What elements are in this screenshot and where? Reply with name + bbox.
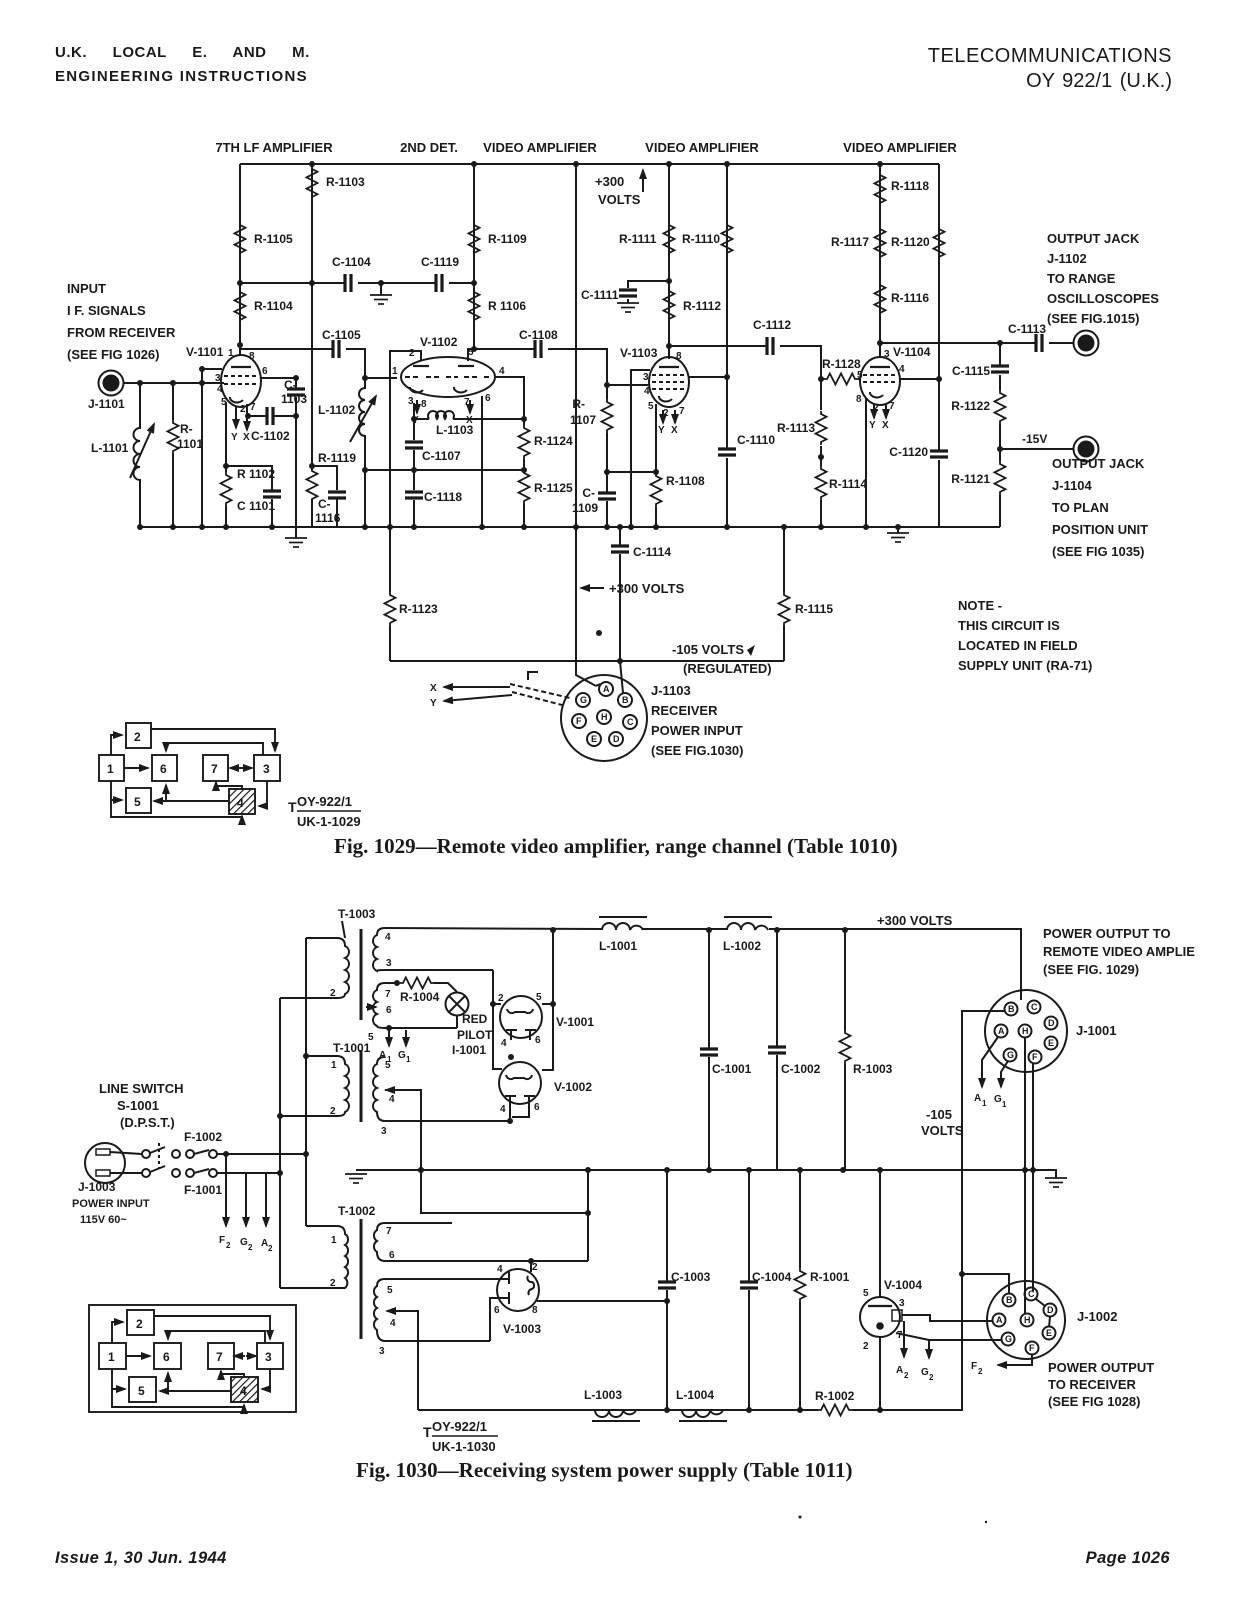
svg-text:R-1003: R-1003 xyxy=(853,1062,893,1076)
svg-text:L-1102: L-1102 xyxy=(318,403,356,417)
capacitor C-1104 xyxy=(345,274,351,292)
svg-text:Fig. 1030—Receiving system pow: Fig. 1030—Receiving system power supply … xyxy=(356,1458,852,1482)
node xyxy=(237,280,243,286)
wire 2 to 3 xyxy=(151,729,275,751)
svg-text:H: H xyxy=(1024,1315,1031,1325)
svg-text:B: B xyxy=(622,695,629,705)
wire: -105 line from pin B xyxy=(962,1011,1004,1274)
svg-text:C: C xyxy=(1028,1289,1035,1299)
T-1001 primary xyxy=(280,1056,349,1116)
svg-text:2: 2 xyxy=(929,1373,934,1382)
ground below bus at x=898 xyxy=(897,527,899,533)
rectifier V-1002 xyxy=(499,1062,541,1104)
svg-text:C-1113: C-1113 xyxy=(1008,322,1046,336)
svg-text:X: X xyxy=(243,432,250,443)
wire: mid rail y=470 xyxy=(365,469,524,471)
wire: V-1104 screen to x=939 xyxy=(900,378,939,380)
box 6 xyxy=(152,755,177,781)
svg-text:4: 4 xyxy=(217,384,223,395)
svg-text:R-1118: R-1118 xyxy=(891,179,929,193)
svg-text:5: 5 xyxy=(387,1285,393,1296)
A1 G1 tap arrows xyxy=(386,1025,392,1031)
wire: C-1108 coupling xyxy=(474,349,650,385)
filter cap C-1004 xyxy=(748,1170,750,1410)
svg-text:115V 60~: 115V 60~ xyxy=(80,1214,127,1226)
output jack J-1102 xyxy=(1074,331,1099,356)
svg-text:6: 6 xyxy=(535,1035,541,1046)
svg-text:8: 8 xyxy=(676,351,682,362)
block diagram 2 border xyxy=(89,1305,296,1412)
svg-text:OY-922/1: OY-922/1 xyxy=(432,1419,487,1434)
svg-text:C-1119: C-1119 xyxy=(421,255,459,269)
svg-text:I-1001: I-1001 xyxy=(452,1043,486,1057)
svg-text:R 1102: R 1102 xyxy=(237,467,275,481)
svg-text:7: 7 xyxy=(250,402,256,413)
svg-text:VIDEO AMPLIFIER: VIDEO AMPLIFIER xyxy=(843,140,957,155)
connector J-1002 xyxy=(987,1281,1065,1359)
svg-text:C-1003: C-1003 xyxy=(671,1270,711,1284)
svg-text:-105: -105 xyxy=(926,1107,952,1122)
svg-text:7: 7 xyxy=(385,989,391,1000)
resistor R-1109 xyxy=(469,222,480,256)
resistor R-1104 xyxy=(235,289,246,323)
svg-text:POWER OUTPUT TO: POWER OUTPUT TO xyxy=(1043,926,1171,941)
svg-text:T-1001: T-1001 xyxy=(333,1041,371,1055)
wire: V-1104 plate xyxy=(879,343,881,357)
Y X arrows V-1103 xyxy=(662,410,664,423)
svg-text:7: 7 xyxy=(386,1226,392,1237)
svg-text:F: F xyxy=(1029,1343,1035,1353)
wire: V-1103 pin3 return xyxy=(631,370,650,527)
wire: T-1002 pin5 to V-1003 pin4 xyxy=(385,1278,509,1280)
svg-text:C-1110: C-1110 xyxy=(737,433,775,447)
svg-text:Fig. 1029—Remote video amplifi: Fig. 1029—Remote video amplifier, range … xyxy=(334,834,898,858)
svg-text:2: 2 xyxy=(248,1243,253,1252)
wire: x=363 drop to bus xyxy=(364,436,366,527)
svg-text:FROM RECEIVER: FROM RECEIVER xyxy=(67,325,176,340)
svg-text:C-: C- xyxy=(582,486,595,500)
svg-text:V-1001: V-1001 xyxy=(556,1015,594,1029)
svg-text:C-1001: C-1001 xyxy=(712,1062,752,1076)
svg-text:OY 922/1 (U.K.): OY 922/1 (U.K.) xyxy=(1026,70,1172,92)
resistor R-1111 xyxy=(664,222,675,256)
wire: plug to switch xyxy=(110,1152,142,1173)
svg-text:4: 4 xyxy=(644,386,650,397)
svg-text:C-1107: C-1107 xyxy=(422,449,461,463)
svg-text:7: 7 xyxy=(889,401,895,412)
svg-text:2: 2 xyxy=(134,730,141,744)
svg-text:C-1114: C-1114 xyxy=(633,545,671,559)
choke L-1003 xyxy=(595,1410,636,1417)
svg-text:C-1004: C-1004 xyxy=(752,1270,792,1284)
svg-text:G: G xyxy=(1005,1334,1012,1344)
connector J-1001 xyxy=(985,990,1067,1072)
svg-text:TO PLAN: TO PLAN xyxy=(1052,500,1109,515)
svg-text:(SEE FIG.1015): (SEE FIG.1015) xyxy=(1047,311,1139,326)
resistor R-1107 xyxy=(602,399,613,433)
wire: V-1004 cathode down xyxy=(879,1337,881,1410)
svg-text:8: 8 xyxy=(532,1305,538,1316)
box 2 xyxy=(126,723,151,748)
svg-text:3: 3 xyxy=(215,373,221,384)
svg-text:6: 6 xyxy=(163,1350,170,1364)
svg-text:R-: R- xyxy=(572,397,585,411)
resistor R-1123 xyxy=(389,527,391,661)
svg-text:C-1104: C-1104 xyxy=(332,255,371,269)
svg-text:6: 6 xyxy=(386,1005,392,1016)
wire: T-1002 tap arrow to bottom rail xyxy=(394,1311,418,1410)
svg-text:R-1002: R-1002 xyxy=(815,1389,855,1403)
svg-text:4: 4 xyxy=(385,932,391,943)
wire: pin4 to R-1124 xyxy=(495,377,524,527)
stray mark 2 xyxy=(985,1521,987,1523)
A2 G2 arrows xyxy=(903,1321,905,1357)
svg-text:INPUT: INPUT xyxy=(67,281,106,296)
svg-text:C-1108: C-1108 xyxy=(519,328,558,342)
svg-text:H: H xyxy=(601,712,608,722)
wire to C-1111 xyxy=(628,281,669,288)
svg-text:C-1120: C-1120 xyxy=(889,445,928,459)
filter cap C-1001 xyxy=(708,930,710,1170)
Y X arrows V-1104 xyxy=(873,405,875,418)
svg-text:3: 3 xyxy=(381,1126,387,1137)
svg-text:2: 2 xyxy=(330,1278,336,1289)
svg-text:REMOTE VIDEO AMPLIE: REMOTE VIDEO AMPLIE xyxy=(1043,944,1195,959)
svg-text:2: 2 xyxy=(498,993,504,1004)
box 1 xyxy=(99,755,124,781)
svg-text:(SEE FIG 1028): (SEE FIG 1028) xyxy=(1048,1394,1140,1409)
svg-text:L-1004: L-1004 xyxy=(676,1388,714,1402)
wire: V-1002 filament xyxy=(510,1106,529,1121)
resistor R-1120 xyxy=(934,226,945,260)
svg-text:8: 8 xyxy=(249,351,255,362)
svg-text:3: 3 xyxy=(379,1346,385,1357)
wire 1 to 6 xyxy=(124,767,148,769)
wire: +300 top bus fig1030 xyxy=(385,928,1021,1000)
T-1003 secondary HV winding xyxy=(373,928,493,971)
svg-text:PILOT: PILOT xyxy=(457,1028,493,1042)
wire: grid leak node x=607 xyxy=(606,385,608,527)
svg-text:2: 2 xyxy=(532,1262,538,1273)
pin2/pin7 Y X arrows V-1101 xyxy=(235,407,237,428)
switch S-1001 contacts xyxy=(142,1150,150,1158)
F2 G2 A2 tap arrows xyxy=(225,1154,227,1226)
T-1002 primary xyxy=(280,1226,348,1288)
resistor R-1128 horizontal xyxy=(824,374,858,385)
svg-text:J-1003: J-1003 xyxy=(78,1180,116,1194)
svg-text:T-1002: T-1002 xyxy=(338,1204,376,1218)
wire: HV plate feed x=493 xyxy=(493,970,502,1069)
resistor R-1121 xyxy=(995,461,1006,495)
svg-text:C-1102: C-1102 xyxy=(251,429,290,443)
svg-text:4: 4 xyxy=(497,1264,503,1275)
svg-text:RED: RED xyxy=(462,1012,488,1026)
wire 6/3 link xyxy=(166,743,263,755)
svg-text:V-1103: V-1103 xyxy=(620,346,658,360)
svg-text:2: 2 xyxy=(268,1244,273,1253)
rectifier V-1001 xyxy=(500,996,542,1038)
wire + capacitor C-1101 xyxy=(226,466,272,527)
wire: output coupling line y=343 xyxy=(880,342,1073,344)
input jack J-1101 xyxy=(99,371,124,396)
svg-text:S-1001: S-1001 xyxy=(117,1098,159,1113)
wire: pin7 line to J-1002 G xyxy=(896,1333,1001,1340)
svg-text:V-1002: V-1002 xyxy=(554,1080,592,1094)
svg-text:3: 3 xyxy=(265,1350,272,1364)
wire: R-1120 branch x=939 xyxy=(938,164,940,527)
T-1002 core xyxy=(360,1219,363,1339)
svg-text:VIDEO AMPLIFIER: VIDEO AMPLIFIER xyxy=(483,140,597,155)
svg-text:R-1108: R-1108 xyxy=(666,474,705,488)
wire: V-1004 plate up xyxy=(879,1170,881,1297)
svg-text:4: 4 xyxy=(899,364,905,375)
capacitor C-1105 xyxy=(333,340,339,358)
wire: pole 1 line xyxy=(217,1153,306,1155)
svg-text:C-1111: C-1111 xyxy=(581,288,619,302)
wire: cathode branch pin5 xyxy=(225,402,227,527)
wire: input line xyxy=(123,382,224,384)
wire: ground bottom bus xyxy=(140,526,1000,528)
svg-text:1: 1 xyxy=(107,762,114,776)
svg-text:R-1123: R-1123 xyxy=(399,602,438,616)
wire: 2nd det plate branch x=474 xyxy=(473,164,475,349)
capacitor C-1108 xyxy=(535,340,541,358)
svg-text:A: A xyxy=(996,1315,1003,1325)
resistor R-1102 xyxy=(221,472,232,506)
wire: V-1103 screen to R-1110 xyxy=(689,376,727,378)
resistor R-1113 xyxy=(816,411,827,445)
capacitor C-1116 xyxy=(328,492,346,498)
box 6b xyxy=(154,1343,181,1369)
filter cap C-1002 xyxy=(776,930,778,1170)
svg-text:1: 1 xyxy=(982,1099,987,1108)
box 1b xyxy=(99,1343,126,1369)
resistor R-1119 xyxy=(307,468,318,502)
resistor R-1116 xyxy=(875,282,886,316)
svg-text:7TH LF AMPLIFIER: 7TH LF AMPLIFIER xyxy=(215,140,333,155)
svg-text:C-1115: C-1115 xyxy=(952,364,990,378)
svg-text:5: 5 xyxy=(857,370,863,381)
capacitor C-1119 xyxy=(436,274,442,292)
svg-text:C-1002: C-1002 xyxy=(781,1062,821,1076)
wire: left plate branch x=240 xyxy=(239,164,241,356)
svg-text:J-1101: J-1101 xyxy=(88,397,125,411)
resistor R-1105 xyxy=(235,222,246,256)
svg-text:C-: C- xyxy=(284,378,297,392)
svg-text:POSITION UNIT: POSITION UNIT xyxy=(1052,522,1148,537)
svg-text:T-1003: T-1003 xyxy=(338,907,376,921)
svg-text:2: 2 xyxy=(330,1106,336,1117)
svg-text:OUTPUT JACK: OUTPUT JACK xyxy=(1047,231,1140,246)
svg-text:E: E xyxy=(591,734,597,744)
capacitor C-1112 xyxy=(767,337,773,355)
F2 arrow from J-1002 F xyxy=(998,1355,1032,1365)
wire: pole 2 line xyxy=(217,1172,280,1174)
wire to 6 bottom xyxy=(165,785,167,801)
svg-text:3: 3 xyxy=(643,372,649,383)
svg-text:A: A xyxy=(998,1026,1005,1036)
svg-text:VOLTS: VOLTS xyxy=(598,192,641,207)
resistor R-1002 xyxy=(818,1405,852,1416)
box 2b xyxy=(127,1310,154,1335)
wire: V-1104 cathode to bus xyxy=(865,398,867,527)
svg-text:5: 5 xyxy=(134,795,141,809)
svg-text:POWER INPUT: POWER INPUT xyxy=(651,723,743,738)
svg-text:J-1002: J-1002 xyxy=(1077,1309,1117,1324)
resistor R-1125 xyxy=(519,470,530,504)
svg-text:5: 5 xyxy=(863,1288,869,1299)
svg-text:E: E xyxy=(1046,1328,1052,1338)
rectifier V-1003 xyxy=(497,1269,539,1311)
svg-text:2: 2 xyxy=(330,988,336,999)
+300 up arrow xyxy=(642,170,644,192)
svg-text:Y: Y xyxy=(430,698,437,709)
svg-text:R-1113: R-1113 xyxy=(777,421,815,435)
capacitor C-1115 xyxy=(991,366,1009,372)
T-1001 core xyxy=(360,1050,363,1122)
capacitor C-1102 on pin7 line xyxy=(247,415,296,417)
svg-text:LINE SWITCH: LINE SWITCH xyxy=(99,1081,184,1096)
small elbow mark xyxy=(528,672,538,680)
resistor R-1118 xyxy=(875,172,886,206)
svg-text:B: B xyxy=(1008,1004,1015,1014)
wire: V-1102 plate pins to +300 node xyxy=(390,349,474,527)
wire: V-1001 filament to T-1001 pin5 xyxy=(508,1054,514,1060)
inductor L-1102 (variable) xyxy=(359,378,365,470)
wire: V-1003 pin2 connect xyxy=(530,1261,532,1272)
tube V-1101 xyxy=(221,355,261,407)
svg-text:3: 3 xyxy=(386,958,392,969)
svg-text:1: 1 xyxy=(228,348,234,359)
wire: V-1103 plate load branch x=669 xyxy=(668,164,670,359)
svg-text:V-1102: V-1102 xyxy=(420,335,458,349)
svg-text:6: 6 xyxy=(262,366,268,377)
tube V-1102 (duo-diode triode) xyxy=(401,357,495,397)
svg-text:1: 1 xyxy=(392,366,398,377)
box 3 xyxy=(254,755,280,781)
svg-text:3: 3 xyxy=(884,349,890,360)
wire: V-1103 plate pin8 xyxy=(668,346,670,357)
svg-text:3: 3 xyxy=(899,1298,905,1309)
svg-text:1101: 1101 xyxy=(177,437,203,451)
svg-text:F: F xyxy=(971,1361,977,1372)
svg-text:F: F xyxy=(219,1235,225,1246)
ground symbol right end xyxy=(1036,1170,1056,1178)
svg-text:(D.P.S.T.): (D.P.S.T.) xyxy=(120,1115,175,1130)
svg-text:V-1004: V-1004 xyxy=(884,1278,922,1292)
svg-text:G: G xyxy=(398,1050,406,1061)
box 7b xyxy=(208,1343,234,1369)
svg-text:R-1103: R-1103 xyxy=(326,175,365,189)
svg-text:Y: Y xyxy=(231,432,238,443)
svg-text:C-1105: C-1105 xyxy=(322,328,361,342)
svg-text:3: 3 xyxy=(263,762,270,776)
svg-text:G: G xyxy=(921,1367,929,1378)
svg-text:4: 4 xyxy=(237,796,244,810)
svg-text:1103: 1103 xyxy=(281,392,307,406)
wire: C-1115/R-1122 chain x=1000 xyxy=(999,343,1001,527)
pilot lamp circuit R-1004 xyxy=(394,980,400,986)
svg-text:5: 5 xyxy=(138,1384,145,1398)
svg-text:R-1125: R-1125 xyxy=(534,481,573,495)
svg-text:8: 8 xyxy=(856,394,862,405)
svg-text:7: 7 xyxy=(216,1350,223,1364)
capacitor C-1114 below bus xyxy=(620,527,623,693)
svg-text:R-1110: R-1110 xyxy=(682,232,720,246)
svg-text:6: 6 xyxy=(494,1305,500,1316)
svg-text:D: D xyxy=(1048,1018,1055,1028)
svg-text:R-1115: R-1115 xyxy=(795,602,833,616)
svg-text:R-1004: R-1004 xyxy=(400,990,440,1004)
resistor R-1106 xyxy=(469,289,480,323)
output jack J-1104 xyxy=(1074,437,1099,462)
resistor R-1114 xyxy=(816,466,827,500)
svg-text:4: 4 xyxy=(500,1104,506,1115)
svg-text:J-1104: J-1104 xyxy=(1052,478,1093,493)
wire: V-1004 pin3 to J-1002 A xyxy=(902,1315,992,1321)
V-1102 deflection arrows Y X xyxy=(416,400,418,413)
svg-text:T: T xyxy=(423,1424,432,1440)
svg-text:OSCILLOSCOPES: OSCILLOSCOPES xyxy=(1047,291,1159,306)
svg-text:R 1106: R 1106 xyxy=(488,299,526,313)
svg-text:6: 6 xyxy=(534,1102,540,1113)
svg-text:X: X xyxy=(430,683,437,694)
block diagram 1 xyxy=(99,723,280,817)
wire: T-1002 pin3 to V-1003 pin6 xyxy=(490,1298,509,1341)
wire R-1113/R-1114 branch x=821 xyxy=(820,379,822,527)
svg-text:V-1101: V-1101 xyxy=(186,345,224,359)
svg-text:POWER OUTPUT: POWER OUTPUT xyxy=(1048,1360,1154,1375)
svg-text:6: 6 xyxy=(485,393,491,404)
bottom rail to 4 xyxy=(111,800,242,817)
choke L-1002 xyxy=(727,923,768,930)
wire: screen feed y=283 xyxy=(240,282,474,284)
svg-text:R-1105: R-1105 xyxy=(254,232,293,246)
svg-text:X: X xyxy=(671,425,678,436)
svg-text:TO RECEIVER: TO RECEIVER xyxy=(1048,1377,1137,1392)
svg-text:R-1124: R-1124 xyxy=(534,434,573,448)
svg-text:R-1111: R-1111 xyxy=(619,232,657,246)
svg-text:4: 4 xyxy=(499,366,505,377)
node dots on top bus xyxy=(309,161,315,167)
svg-text:5: 5 xyxy=(385,1060,391,1071)
wire: -105 volt line xyxy=(390,660,784,662)
svg-text:2: 2 xyxy=(136,1317,143,1331)
box 4 hatched xyxy=(229,789,255,814)
wire: C-1116 branch xyxy=(312,466,337,527)
tube V-1103 xyxy=(649,357,689,407)
wire: mains pole-1 vertical x=306 xyxy=(305,938,307,1226)
box 4b hatched xyxy=(231,1377,258,1402)
svg-text:F-1001: F-1001 xyxy=(184,1183,222,1197)
svg-text:C: C xyxy=(1031,1002,1038,1012)
svg-text:2: 2 xyxy=(904,1371,909,1380)
svg-text:TO RANGE: TO RANGE xyxy=(1047,271,1116,286)
svg-text:R-1104: R-1104 xyxy=(254,299,293,313)
wire: cathode return x=414 xyxy=(413,419,415,527)
connector J-1103 xyxy=(561,675,647,761)
wire: J-1001 F down to ground bus and on to J-1002 C xyxy=(1032,1063,1034,1291)
svg-text:R-1112: R-1112 xyxy=(683,299,721,313)
svg-text:5: 5 xyxy=(536,992,542,1003)
svg-text:R-1121: R-1121 xyxy=(951,472,990,486)
svg-text:2: 2 xyxy=(978,1367,983,1376)
svg-text:LOCATED IN FIELD: LOCATED IN FIELD xyxy=(958,638,1078,653)
resistor R-1115 xyxy=(783,527,785,661)
svg-text:L-1003: L-1003 xyxy=(584,1388,622,1402)
svg-text:G: G xyxy=(1007,1050,1014,1060)
box 5b xyxy=(129,1377,156,1402)
